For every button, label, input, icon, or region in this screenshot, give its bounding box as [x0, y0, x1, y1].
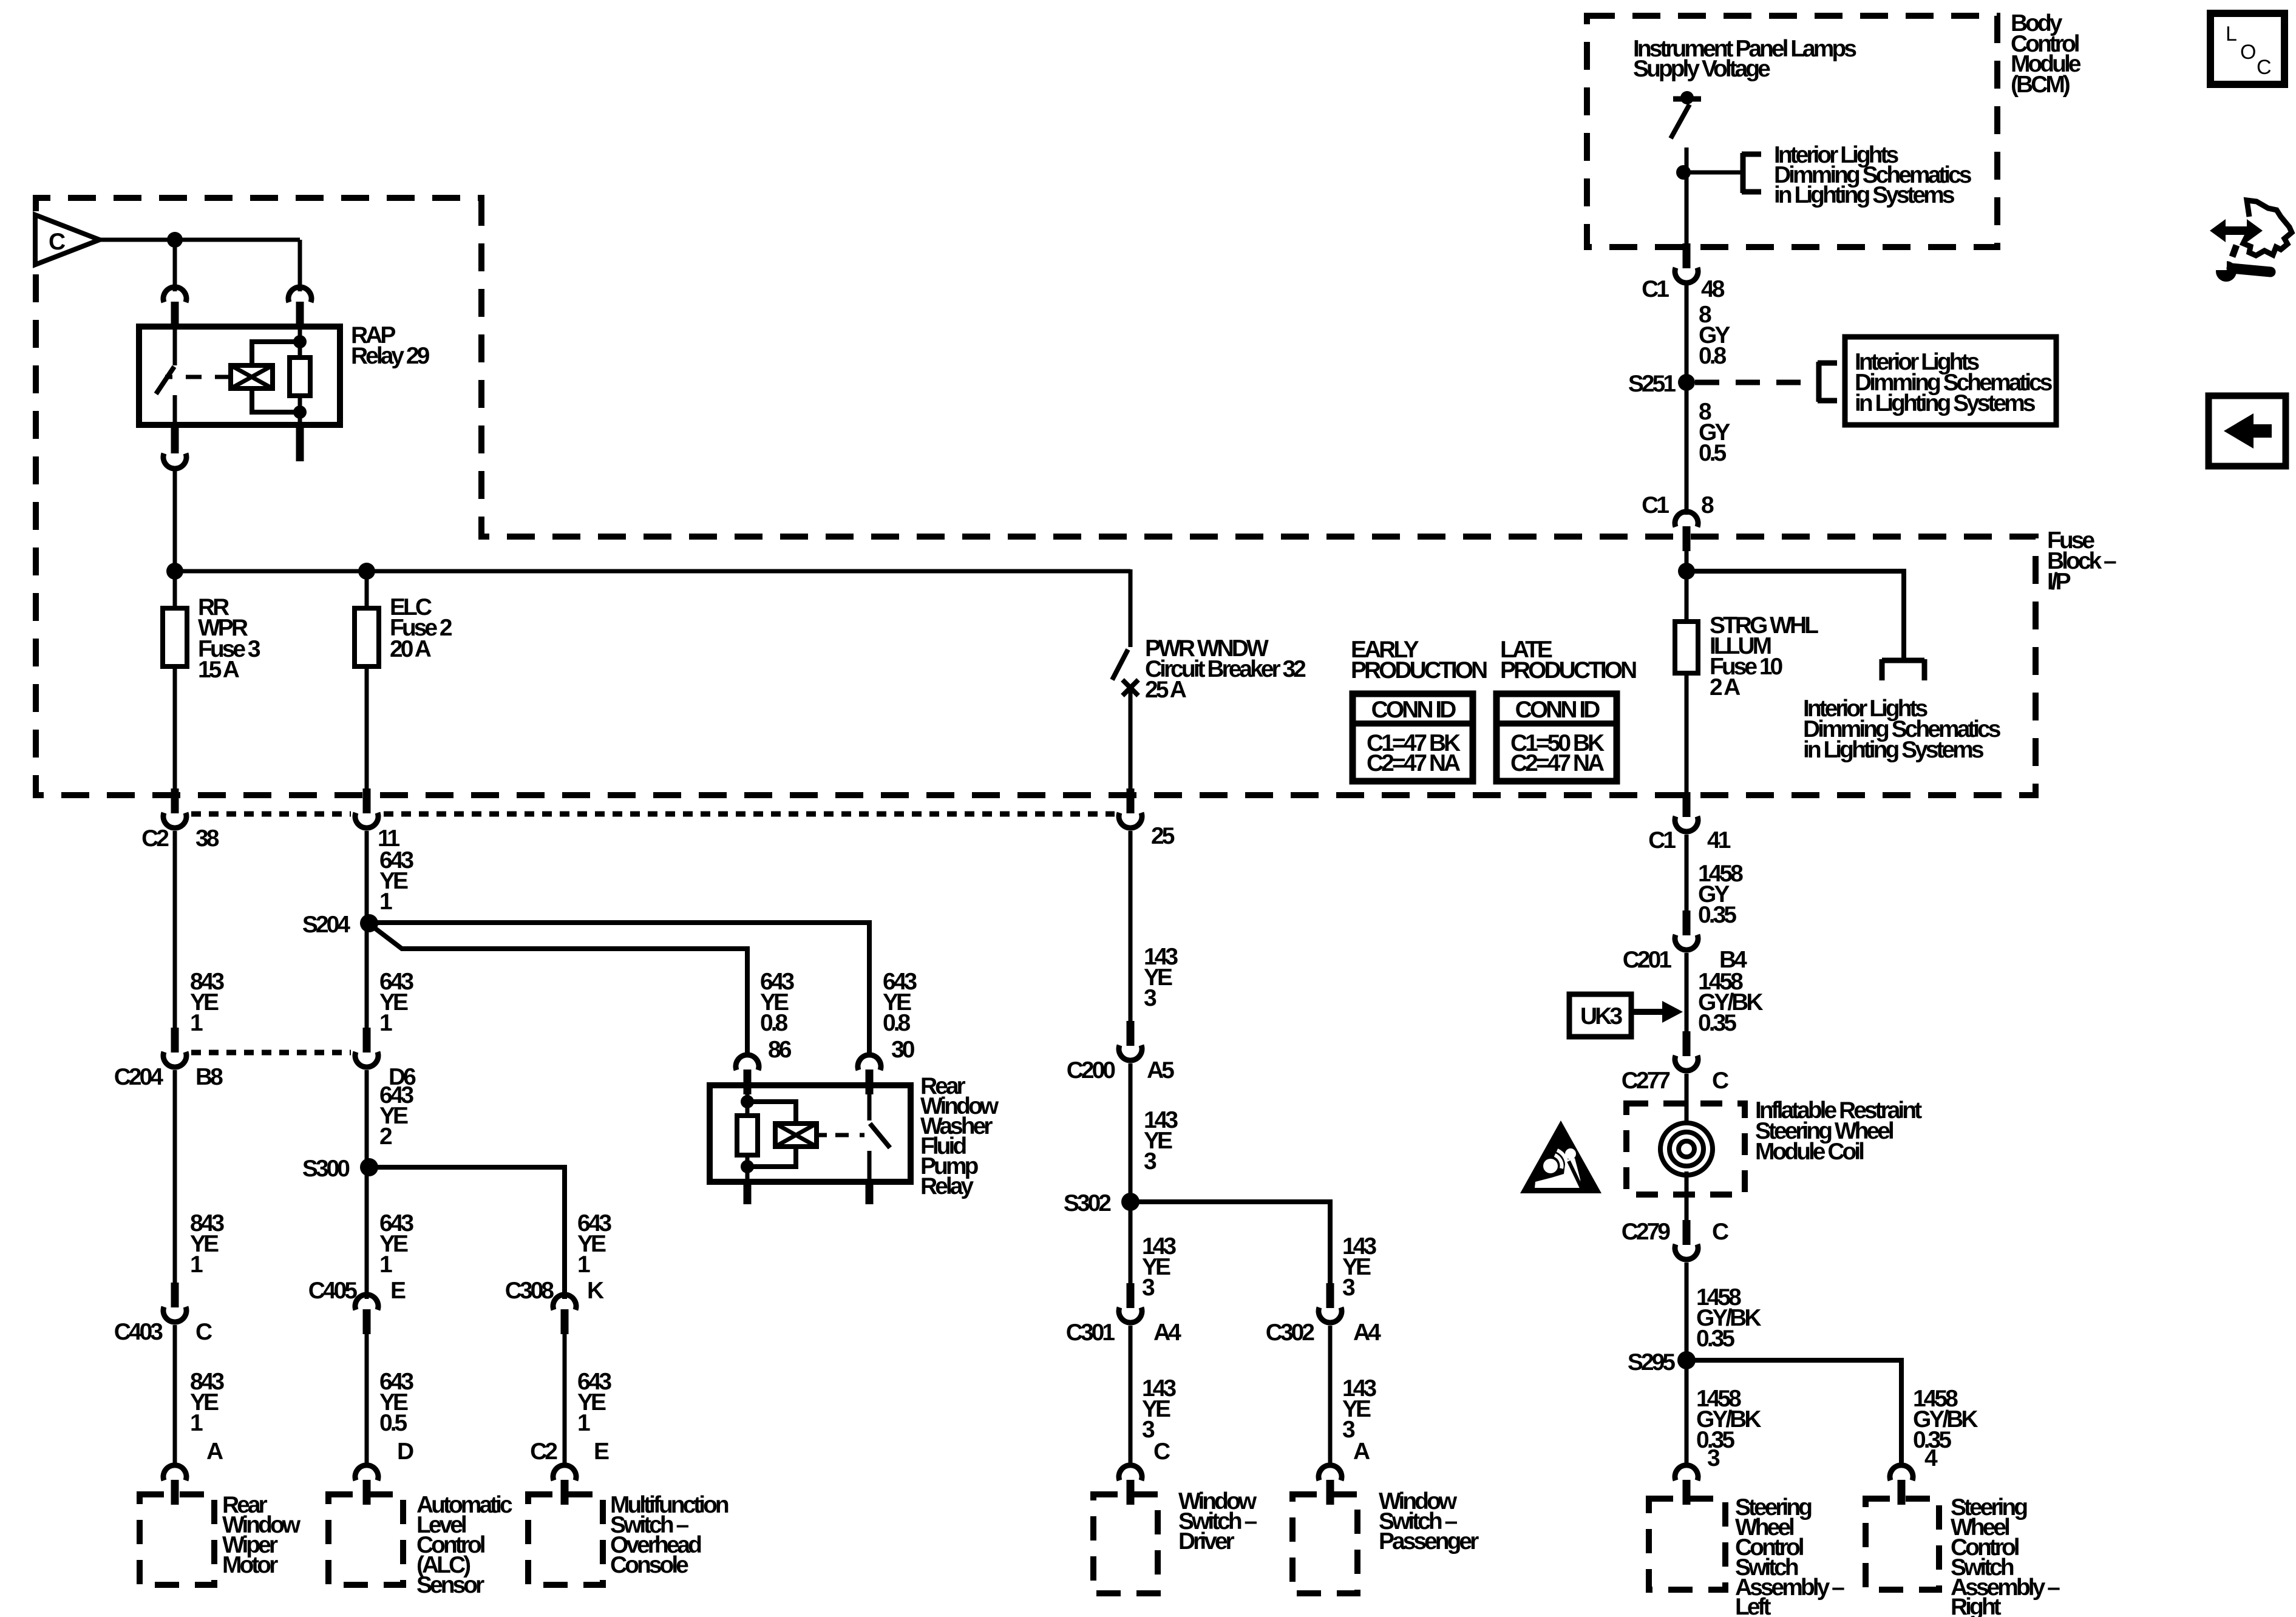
- connector C201 pin B4: [1675, 935, 1698, 950]
- washer relay switch lower contact: [868, 1151, 872, 1182]
- BCM lamp supply switch blade: [1671, 104, 1690, 138]
- svg-text:I/P: I/P: [2047, 569, 2071, 595]
- fuse RR WPR Fuse 3: [163, 608, 187, 666]
- connector steering wheel switch left pin 3: [1675, 1465, 1698, 1480]
- wire 1458 GY 0.35: [1685, 835, 1689, 919]
- connector C279 pin C: [1675, 1244, 1698, 1259]
- svg-text:Module Coil: Module Coil: [1755, 1139, 1864, 1165]
- wire RR WPR fuse: [173, 571, 177, 795]
- svg-text:48: 48: [1701, 276, 1725, 302]
- svg-text:30: 30: [891, 1037, 915, 1063]
- wire 143 YE 3 f: [1328, 1326, 1333, 1463]
- module BCM dashed box: [1587, 16, 1997, 247]
- wire RAP relay to bus: [173, 467, 177, 571]
- svg-text:D: D: [397, 1439, 413, 1465]
- module Inflatable Restraint Steering Wheel Module Coil box: [1626, 1103, 1745, 1195]
- wire 643 YE 1 e: [563, 1333, 567, 1463]
- washer relay resistor: [737, 1116, 758, 1155]
- fork pointer BCM dimming: [1741, 153, 1746, 193]
- svg-text:C279: C279: [1622, 1219, 1671, 1245]
- wire down to RAP relay pin 2: [298, 240, 302, 291]
- connector multifunction switch pin E: [553, 1465, 576, 1480]
- wire coil to C279: [1685, 1171, 1689, 1230]
- connector C2 pin 38: [163, 813, 186, 828]
- node C triangle flag: [35, 215, 100, 265]
- icon back arrow box: [2209, 396, 2286, 466]
- svg-text:in Lighting Systems: in Lighting Systems: [1855, 390, 2036, 416]
- svg-text:C2=47 NA: C2=47 NA: [1367, 750, 1461, 776]
- junction bus at RR WPR fuse: [166, 563, 183, 580]
- svg-text:0.35: 0.35: [1696, 1326, 1734, 1352]
- svg-text:Sensor: Sensor: [416, 1572, 484, 1598]
- connector C308 pin K: [553, 1295, 576, 1310]
- washer relay coil: [775, 1124, 817, 1147]
- svg-text:C: C: [1712, 1068, 1729, 1094]
- connector C1 pin 8: [1675, 512, 1698, 527]
- wire 143 YE 3 b: [1129, 1063, 1133, 1202]
- connector fuse block pin D6: [355, 1052, 378, 1067]
- wire BCM to STRG WHL fuse: [1685, 549, 1689, 795]
- washer relay pin 30 connector: [858, 1055, 881, 1070]
- airbag warning triangle: [1520, 1120, 1601, 1193]
- svg-text:in Lighting Systems: in Lighting Systems: [1803, 737, 1984, 763]
- icon hand with arrows: [2219, 226, 2254, 235]
- svg-text:C405: C405: [308, 1278, 358, 1304]
- svg-text:0.35: 0.35: [1698, 902, 1736, 928]
- svg-text:41: 41: [1707, 827, 1731, 853]
- wire S204 to relay pin 86: [372, 926, 747, 1053]
- washer relay left pin lower wire: [746, 1155, 750, 1182]
- dotted connector tie line C2: [191, 812, 351, 817]
- svg-text:Relay 29: Relay 29: [351, 343, 430, 369]
- clockspring coil symbol: [1660, 1123, 1713, 1175]
- svg-text:38: 38: [195, 825, 219, 852]
- svg-text:UK3: UK3: [1580, 1003, 1622, 1029]
- splice S295: [1677, 1351, 1696, 1369]
- svg-text:C2: C2: [141, 825, 169, 852]
- RAP relay coil top branch: [252, 342, 300, 365]
- RAP relay pin 3 connector: [163, 453, 186, 469]
- wire 143 YE 3 a: [1129, 831, 1133, 1029]
- svg-text:Left: Left: [1735, 1594, 1771, 1617]
- connector C301 pin A4: [1119, 1307, 1142, 1323]
- icon LOC box: [2210, 13, 2284, 84]
- svg-text:A: A: [1353, 1439, 1370, 1465]
- RAP relay junction bottom: [293, 405, 307, 419]
- connector ALC sensor pin D: [355, 1465, 378, 1480]
- svg-text:PRODUCTION: PRODUCTION: [1351, 657, 1487, 683]
- svg-text:O: O: [2240, 41, 2256, 64]
- RAP relay pin 1 connector: [163, 287, 186, 302]
- callout box interior lights dimming: [1845, 337, 2056, 425]
- RAP relay switch contact: [173, 327, 177, 365]
- svg-text:2 A: 2 A: [1710, 674, 1741, 700]
- svg-text:C: C: [49, 229, 66, 255]
- RAP relay resistor wire: [298, 327, 302, 425]
- svg-text:20 A: 20 A: [390, 636, 432, 662]
- svg-text:A4: A4: [1153, 1320, 1181, 1346]
- junction at RAP relay left pin: [167, 232, 183, 248]
- washer relay bottom stub left: [744, 1182, 752, 1204]
- washer relay coil branch bottom: [747, 1147, 796, 1167]
- fuse STRG WHL ILLUM Fuse 10: [1675, 622, 1698, 673]
- washer relay linkage: [817, 1133, 827, 1137]
- svg-text:C204: C204: [114, 1064, 164, 1090]
- circuit breaker 32 contact x: [1123, 680, 1138, 696]
- svg-text:C200: C200: [1067, 1057, 1116, 1083]
- svg-text:C2: C2: [530, 1439, 557, 1465]
- splice S251: [1678, 374, 1695, 391]
- relay RAP Relay 29 box: [139, 327, 340, 425]
- module Automatic Level Control Sensor box: [328, 1494, 403, 1585]
- svg-text:0.5: 0.5: [379, 1410, 407, 1436]
- washer relay coil branch top: [747, 1102, 796, 1124]
- washer relay switch blade: [870, 1124, 890, 1148]
- wire 8 GY 0.8: [1685, 284, 1689, 382]
- flag UK3 box: [1569, 994, 1631, 1037]
- module Rear Window Wiper Motor box: [140, 1494, 214, 1585]
- svg-text:0.8: 0.8: [1699, 343, 1727, 369]
- svg-text:C301: C301: [1066, 1320, 1115, 1346]
- connector C200 pin A5: [1119, 1045, 1142, 1060]
- svg-text:A4: A4: [1353, 1320, 1381, 1346]
- wire BCM branch to pointer: [1683, 171, 1742, 175]
- connector C204 pin B8: [163, 1052, 186, 1067]
- RAP relay resistor: [290, 358, 310, 396]
- svg-text:C302: C302: [1266, 1320, 1315, 1346]
- relay Rear Window Washer Fluid Pump box: [710, 1085, 911, 1182]
- dashed wire S251 to pointer: [1695, 380, 1812, 385]
- connector C405 pin E: [355, 1295, 378, 1310]
- wire breaker to fuse block edge: [1129, 688, 1133, 795]
- UK3 arrow: [1631, 1009, 1662, 1015]
- svg-text:S302: S302: [1064, 1190, 1111, 1216]
- svg-text:0.8: 0.8: [760, 1010, 788, 1036]
- connector C277 pin C: [1675, 1056, 1698, 1071]
- connector window switch passenger pin A: [1319, 1465, 1342, 1480]
- wire 843 YE 1 upper: [173, 831, 177, 1036]
- svg-text:S300: S300: [302, 1156, 350, 1182]
- svg-text:15 A: 15 A: [198, 657, 240, 683]
- svg-text:K: K: [587, 1278, 604, 1304]
- svg-text:25: 25: [1151, 823, 1175, 849]
- svg-text:C1: C1: [1648, 827, 1676, 853]
- svg-text:CONN ID: CONN ID: [1371, 697, 1456, 723]
- svg-text:C: C: [1153, 1439, 1170, 1465]
- connector window switch driver pin C: [1119, 1465, 1142, 1480]
- splice S300: [360, 1158, 378, 1176]
- wire 143 YE 3 e: [1129, 1326, 1133, 1463]
- svg-text:C2=47 NA: C2=47 NA: [1510, 750, 1605, 776]
- wire 643 YE 0.5: [365, 1333, 369, 1463]
- RAP relay bottom pin 3 stub: [171, 425, 179, 453]
- svg-text:0.8: 0.8: [883, 1010, 911, 1036]
- svg-text:Right: Right: [1951, 1594, 2002, 1617]
- svg-text:S295: S295: [1628, 1349, 1675, 1375]
- svg-text:A5: A5: [1147, 1057, 1174, 1083]
- table CONN ID early: [1353, 694, 1473, 781]
- wire S295 to left switch: [1685, 1360, 1689, 1463]
- wire 8 GY 0.5: [1685, 382, 1689, 515]
- fork pointer S251 dimming: [1816, 362, 1822, 402]
- wire ELC fuse: [365, 571, 369, 795]
- junction bus at ELC fuse: [358, 563, 375, 580]
- svg-text:C308: C308: [505, 1278, 554, 1304]
- RAP relay bottom pin 4 stub: [296, 425, 304, 461]
- junction BCM internal: [1676, 165, 1691, 180]
- connector fuse block pin 25: [1119, 813, 1142, 828]
- module Window Switch Passenger box: [1292, 1494, 1357, 1593]
- wire into coil: [1685, 1074, 1689, 1127]
- svg-text:C201: C201: [1623, 947, 1672, 973]
- svg-text:Passenger: Passenger: [1379, 1528, 1479, 1554]
- svg-text:C1: C1: [1642, 276, 1669, 302]
- wire S204 to relay pin 30: [369, 923, 869, 1053]
- wire down to RAP relay pin 1: [173, 240, 177, 291]
- svg-text:Driver: Driver: [1178, 1528, 1235, 1554]
- svg-text:S204: S204: [302, 912, 350, 938]
- BCM lamp supply switch node: [1680, 91, 1694, 104]
- svg-text:C: C: [195, 1319, 212, 1345]
- svg-text:0.5: 0.5: [1699, 440, 1727, 466]
- dotted connector tie line C204: [191, 1050, 351, 1056]
- connector fuse block pin 11: [355, 813, 378, 828]
- junction STRG WHL branch: [1678, 563, 1695, 580]
- RAP relay linkage dashes: [165, 375, 172, 379]
- svg-text:Console: Console: [610, 1552, 688, 1578]
- wire BCM internal: [1685, 147, 1689, 248]
- module Steering Wheel Control Switch Assembly Right box: [1866, 1499, 1939, 1590]
- svg-text:Motor: Motor: [222, 1552, 278, 1578]
- washer relay pin 86 connector: [736, 1055, 759, 1070]
- svg-text:L: L: [2226, 22, 2237, 46]
- wire 1458 GY/BK 0.35 a: [1685, 953, 1689, 1040]
- fuse ELC Fuse 2: [355, 608, 379, 666]
- svg-text:E: E: [390, 1278, 406, 1304]
- wire 643 YE 1 a: [365, 831, 369, 1036]
- module Steering Wheel Control Switch Assembly Left box: [1649, 1499, 1725, 1590]
- RAP relay coil: [231, 365, 273, 388]
- wire feed bus: [175, 569, 1130, 574]
- washer relay junction bottom: [741, 1160, 754, 1173]
- wire S295 to right switch: [1686, 1360, 1901, 1463]
- RAP relay pin 2 connector: [288, 287, 311, 302]
- svg-text:Relay: Relay: [920, 1173, 974, 1199]
- connector C403 pin C: [163, 1307, 186, 1322]
- connector C302 pin A4: [1319, 1307, 1342, 1323]
- washer relay switch contact: [868, 1085, 872, 1120]
- svg-text:86: 86: [768, 1037, 792, 1063]
- wire from C to RAP relay pins: [100, 238, 300, 242]
- svg-text:in Lighting Systems: in Lighting Systems: [1774, 182, 1955, 208]
- svg-text:E: E: [594, 1439, 609, 1465]
- svg-text:C403: C403: [114, 1319, 163, 1345]
- connector C1 pin 48: [1675, 268, 1698, 283]
- RAP relay junction top: [293, 335, 307, 348]
- fork pointer to dimming schematics: [1882, 658, 1924, 663]
- RAP relay switch blade: [156, 367, 174, 394]
- svg-text:Supply Voltage: Supply Voltage: [1633, 56, 1770, 82]
- wire 1458 GY/BK 0.35 b: [1685, 1263, 1689, 1360]
- wire S302 to C301: [1129, 1202, 1133, 1294]
- svg-text:A: A: [206, 1439, 223, 1465]
- svg-text:C: C: [1712, 1219, 1729, 1245]
- fuse block I/P dashed outline: [36, 198, 2036, 795]
- BCM lamp supply switch bar: [1673, 97, 1701, 102]
- svg-text:(BCM): (BCM): [2011, 72, 2070, 98]
- wire S300 to C308: [369, 1167, 565, 1299]
- svg-text:0.35: 0.35: [1698, 1010, 1736, 1036]
- washer relay bottom stub right: [866, 1182, 874, 1204]
- wire S302 to C302: [1130, 1202, 1330, 1294]
- svg-text:PRODUCTION: PRODUCTION: [1500, 657, 1636, 683]
- connector C1 pin 41: [1675, 816, 1698, 832]
- wire branch to dimming pointer: [1686, 571, 1904, 659]
- wire 843 YE 1 lower: [173, 1325, 177, 1463]
- svg-text:CONN ID: CONN ID: [1515, 697, 1600, 723]
- washer relay junction top: [741, 1095, 754, 1108]
- connector rear window wiper motor pin A: [163, 1465, 186, 1480]
- splice S204: [360, 914, 378, 932]
- table CONN ID late: [1496, 694, 1617, 781]
- svg-text:C: C: [2257, 56, 2272, 79]
- module Window Switch Driver box: [1093, 1494, 1158, 1593]
- wire 843 YE 1 mid: [173, 1070, 177, 1283]
- circuit breaker 32 blade: [1112, 649, 1128, 680]
- svg-text:B8: B8: [195, 1064, 223, 1090]
- RAP relay coil bottom branch: [252, 388, 300, 412]
- svg-text:S251: S251: [1628, 371, 1676, 397]
- splice S302: [1121, 1193, 1140, 1211]
- svg-text:C1: C1: [1642, 492, 1669, 518]
- wire 643 YE 1 c: [365, 1070, 369, 1299]
- washer relay left pin wire: [746, 1086, 750, 1116]
- icon wrench: [2216, 261, 2237, 282]
- module Multifunction Switch Overhead Console box: [528, 1494, 603, 1585]
- connector steering wheel switch right pin 4: [1890, 1465, 1913, 1480]
- wire bus corner down to breaker: [1129, 569, 1133, 647]
- RAP relay switch lower contact: [173, 395, 177, 425]
- svg-text:25 A: 25 A: [1145, 677, 1187, 703]
- svg-text:C277: C277: [1622, 1068, 1670, 1094]
